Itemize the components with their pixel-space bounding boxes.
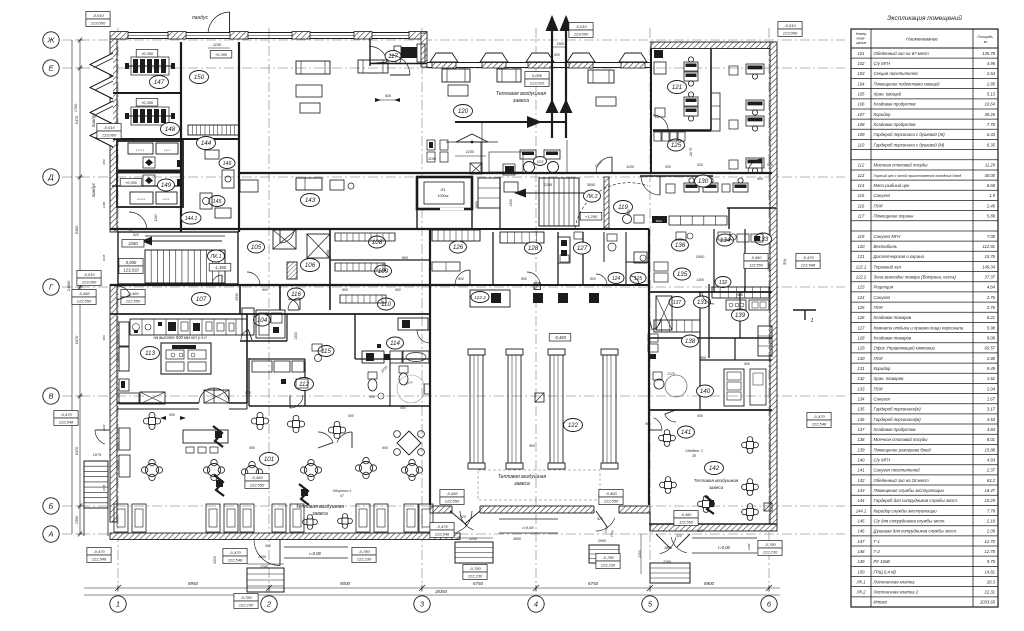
svg-text:920: 920: [697, 163, 703, 167]
svg-text:-0,470: -0,470: [60, 412, 72, 417]
diamond table 101 right: [394, 431, 425, 456]
svg-text:5.98: 5.98: [987, 325, 996, 330]
stair LK2: [500, 177, 609, 228]
room label 104: [254, 314, 271, 326]
svg-text:11.29: 11.29: [985, 163, 996, 168]
svg-text:Коридор: Коридор: [874, 366, 891, 371]
reception counters: [481, 142, 560, 173]
inner left wall small dims: [102, 59, 106, 491]
svg-text:3050: 3050: [587, 183, 596, 187]
transformer T-1: [125, 57, 175, 75]
svg-text:24,75: 24,75: [689, 148, 693, 158]
room label 117: [385, 51, 401, 62]
svg-text:-0,010: -0,010: [83, 272, 95, 277]
svg-text:Торговый зал: Торговый зал: [874, 264, 902, 269]
svg-text:-0,780: -0,780: [602, 555, 614, 560]
door left entrance: [117, 286, 130, 295]
room label 135: [674, 268, 691, 280]
svg-text:39.26: 39.26: [985, 112, 996, 117]
room label 136: [672, 239, 689, 251]
svg-text:Кладовая продуктов: Кладовая продуктов: [874, 102, 917, 107]
svg-text:2.04: 2.04: [986, 386, 996, 391]
svg-text:114: 114: [858, 183, 865, 188]
svg-text:142: 142: [709, 465, 720, 472]
svg-text:i=0,08: i=0,08: [309, 551, 321, 556]
svg-text:завеса: завеса: [512, 98, 529, 104]
wheelchair 142: [698, 496, 715, 514]
elevation mark -0,470/122,548: [54, 411, 78, 426]
svg-text:С/у МГН: С/у МГН: [874, 61, 892, 66]
svg-text:Итого: Итого: [874, 600, 888, 605]
hall mid diamond: [535, 393, 544, 402]
wall y228 upper band: [470, 228, 649, 230]
desk: [733, 178, 748, 192]
dims stair LK2: [509, 160, 603, 207]
svg-text:8.01: 8.01: [987, 437, 995, 442]
svg-text:122.1: 122.1: [856, 264, 866, 269]
svg-text:ЛК.2: ЛК.2: [856, 590, 867, 595]
svg-text:143: 143: [858, 488, 866, 493]
svg-text:1075: 1075: [93, 453, 102, 457]
kitchen counter 139: [712, 287, 769, 310]
room label 147: [150, 76, 169, 89]
wall x430 vertical: [429, 229, 431, 310]
kitchenette row 127: [669, 216, 727, 225]
svg-text:С/у для сотрудников службы экс: С/у для сотрудников службы экспл.: [874, 518, 946, 523]
svg-text:1000кг: 1000кг: [438, 194, 449, 198]
svg-text:18.47: 18.47: [985, 488, 996, 493]
kitchen bottom equipment row: [119, 390, 229, 404]
right block horizontal wall y338: [649, 337, 772, 339]
svg-text:-0,460: -0,460: [251, 475, 263, 480]
svg-text:101: 101: [858, 51, 865, 56]
svg-text:-1,350: -1,350: [214, 265, 227, 270]
svg-text:115: 115: [858, 193, 865, 198]
svg-text:5.89: 5.89: [987, 214, 996, 219]
black pillars row: [533, 293, 599, 303]
room 103 toilet: [368, 372, 384, 399]
svg-text:1100: 1100: [213, 43, 222, 47]
svg-text:Кладовая продуктов: Кладовая продуктов: [874, 122, 917, 127]
svg-text:Гардероб персонала с душевой (: Гардероб персонала с душевой (М): [874, 142, 945, 147]
axis circle 2: [261, 596, 277, 612]
svg-text:121: 121: [672, 84, 682, 91]
svg-text:ЛК.1: ЛК.1: [210, 254, 222, 260]
svg-text:123: 123: [858, 285, 866, 290]
outer wall bottom right: [650, 512, 777, 531]
square tables at benches: [303, 514, 353, 530]
svg-text:108: 108: [372, 239, 383, 246]
wall x247 kitchen right: [246, 314, 248, 403]
svg-text:128: 128: [528, 245, 539, 252]
dining table: [287, 415, 304, 432]
svg-text:15.88: 15.88: [985, 447, 996, 452]
svg-text:132: 132: [719, 280, 728, 286]
svg-text:Горячий цех с зоной приготовле: Горячий цех с зоной приготовления холодн…: [874, 174, 962, 178]
room label 116: [288, 288, 305, 300]
svg-text:Тепловая воздушная: Тепловая воздушная: [694, 478, 739, 483]
svg-text:123,000: 123,000: [783, 31, 798, 36]
elevation mark -0,010/123,000: [97, 124, 121, 139]
svg-text:1700: 1700: [74, 103, 78, 112]
wall under room 149 block: [112, 185, 181, 187]
svg-text:117: 117: [388, 53, 398, 60]
axis circle Г: [43, 279, 59, 295]
svg-text:800: 800: [521, 277, 527, 281]
svg-text:136: 136: [675, 242, 686, 249]
svg-text:123,000: 123,000: [82, 280, 97, 285]
room 114 equipment: [362, 318, 429, 363]
svg-text:РУ 10кВ: РУ 10кВ: [874, 559, 890, 564]
svg-text:143: 143: [305, 197, 316, 204]
svg-text:2000: 2000: [597, 539, 606, 543]
outer wall left upper: [110, 39, 117, 232]
svg-text:Обеденный зал на 67 мест: Обеденный зал на 67 мест: [874, 51, 930, 56]
svg-text:121: 121: [858, 254, 865, 259]
svg-text:2: 2: [266, 600, 272, 609]
svg-text:6470: 6470: [75, 335, 79, 344]
svg-text:122: 122: [568, 422, 579, 429]
right block horizontal wall y292: [649, 291, 772, 293]
svg-text:920: 920: [676, 534, 682, 538]
svg-text:38350: 38350: [435, 589, 447, 594]
desk: [684, 92, 698, 106]
thermal curtain label hall 120: [496, 91, 546, 104]
svg-text:122,230: 122,230: [468, 574, 483, 579]
svg-text:-0,460: -0,460: [605, 491, 617, 496]
svg-text:116: 116: [291, 291, 301, 298]
elevation mark -0,470/122,548: [807, 413, 831, 428]
svg-text:107: 107: [858, 112, 866, 117]
svg-text:с у с: с у с: [164, 148, 171, 152]
busbar band: [118, 170, 182, 174]
door hall122 left: [417, 330, 430, 343]
elevation mark -0,010/123,000: [86, 12, 110, 27]
svg-text:1300: 1300: [294, 332, 298, 340]
svg-text:63.2: 63.2: [987, 478, 996, 483]
desk: [746, 100, 764, 115]
svg-text:Б: Б: [49, 502, 54, 511]
svg-text:105: 105: [858, 92, 866, 97]
kitchen top wall: [110, 313, 430, 315]
room label 107: [192, 293, 211, 306]
elevation mark -0,460/122,550: [674, 511, 698, 526]
axis circle 4: [528, 596, 544, 612]
svg-text:900: 900: [645, 422, 651, 426]
svg-text:завеса: завеса: [311, 511, 328, 517]
svg-text:Д: Д: [47, 173, 54, 182]
room label 141: [678, 426, 695, 438]
middle rooms divider y260: [330, 259, 430, 261]
svg-text:138: 138: [858, 437, 866, 442]
left outside stair: [84, 461, 108, 536]
svg-text:С/у МГН: С/у МГН: [874, 457, 892, 462]
svg-text:2.64: 2.64: [986, 71, 996, 76]
svg-text:138: 138: [685, 338, 696, 345]
svg-text:завеса: завеса: [708, 485, 724, 490]
room label 122.2: [471, 292, 489, 303]
svg-text:ЛК.1: ЛК.1: [856, 579, 866, 584]
svg-text:1500: 1500: [75, 515, 79, 524]
wall 121 left: [650, 49, 652, 173]
svg-text:2.46: 2.46: [986, 203, 996, 208]
market racks: [468, 349, 618, 469]
svg-text:920: 920: [554, 53, 560, 57]
svg-text:149: 149: [161, 182, 172, 189]
axis circle Д: [43, 169, 59, 185]
step wall at x427: [421, 33, 427, 67]
security room 117: [370, 39, 427, 66]
elevation mark -1,350: [209, 264, 231, 272]
svg-text:6400: 6400: [75, 225, 79, 234]
svg-text:Лестничная клетка 2: Лестничная клетка 2: [873, 590, 919, 595]
svg-text:800: 800: [458, 277, 464, 281]
svg-text:900: 900: [382, 446, 388, 450]
svg-text:2.37: 2.37: [986, 468, 996, 473]
stair LK1 arrows: [141, 237, 222, 257]
svg-text:4.84: 4.84: [987, 427, 996, 432]
svg-text:А: А: [47, 530, 53, 539]
room label 140: [697, 385, 714, 397]
hall 122 top rooms bottom wall: [433, 284, 649, 286]
svg-text:142: 142: [858, 478, 866, 483]
svg-text:145: 145: [858, 518, 866, 523]
svg-text:104: 104: [858, 81, 866, 86]
door room 112: [290, 395, 303, 408]
svg-text:37.37: 37.37: [985, 275, 996, 280]
toilet room 124: [607, 234, 617, 251]
svg-text:-0,470: -0,470: [93, 549, 105, 554]
svg-text:122,550: 122,550: [250, 483, 265, 488]
svg-text:123,000: 123,000: [91, 21, 106, 26]
door entrance B2: [460, 511, 473, 530]
room label 128: [525, 242, 542, 254]
svg-text:Гардероб для сотрудников служб: Гардероб для сотрудников службы экспл.: [874, 498, 959, 503]
outer wall top left section: [110, 32, 427, 40]
svg-text:123,000: 123,000: [574, 32, 589, 37]
svg-text:10.64: 10.64: [985, 102, 996, 107]
svg-text:900: 900: [245, 391, 251, 395]
wall under room 150: [181, 138, 239, 140]
svg-text:пандус: пандус: [91, 112, 96, 127]
desk: [684, 57, 698, 71]
axis circle Б: [43, 498, 59, 514]
svg-text:24900: 24900: [67, 280, 71, 292]
room label 112: [295, 378, 314, 391]
elevation mark +0,300: [210, 51, 232, 59]
svg-text:2930: 2930: [235, 293, 239, 302]
room label 123: [534, 157, 547, 166]
svg-text:122.2: 122.2: [856, 275, 867, 280]
dims mid: [428, 157, 773, 281]
svg-text:920: 920: [767, 163, 773, 167]
svg-text:-0,780: -0,780: [764, 542, 776, 547]
svg-text:Площадь,: Площадь,: [977, 35, 993, 39]
room label 122: [564, 419, 583, 432]
svg-text:144: 144: [858, 498, 866, 503]
svg-text:Гардероб персонала с душевой (: Гардероб персонала с душевой (Ж): [874, 132, 946, 137]
svg-text:1500: 1500: [326, 250, 330, 258]
svg-text:9.08: 9.08: [987, 335, 996, 340]
kitchen bottom wall: [117, 403, 247, 409]
svg-text:завеса: завеса: [513, 481, 530, 487]
ramp door top wall: [192, 12, 230, 48]
door room 121: [653, 115, 668, 130]
svg-text:2175: 2175: [666, 372, 674, 376]
axis circle Ж: [43, 32, 59, 48]
svg-text:108: 108: [858, 122, 866, 127]
room 145 fixtures: [200, 193, 231, 218]
svg-text:122,550: 122,550: [445, 499, 460, 504]
svg-text:-0,780: -0,780: [240, 595, 252, 600]
svg-text:125: 125: [671, 142, 682, 149]
dims middle rooms: [326, 250, 705, 260]
room label 108: [369, 236, 386, 248]
wall under 125: [640, 175, 713, 177]
svg-text:Кладовая товаров: Кладовая товаров: [874, 315, 912, 320]
room label 145: [209, 196, 225, 207]
svg-text:Тепловая воздушная: Тепловая воздушная: [296, 504, 345, 510]
thermal curtain label dining: [296, 504, 345, 517]
room label 149: [158, 179, 175, 191]
storage rack X 106: [287, 234, 330, 279]
thermal curtain 142: [694, 478, 739, 490]
door room 105: [247, 272, 260, 285]
svg-text:9.49: 9.49: [987, 366, 996, 371]
svg-text:6470: 6470: [75, 115, 79, 124]
svg-text:134: 134: [720, 237, 731, 244]
svg-text:106: 106: [858, 102, 866, 107]
svg-text:э э э э: э э э э: [137, 197, 145, 201]
svg-text:12.70: 12.70: [985, 539, 996, 544]
svg-text:-0,470: -0,470: [229, 550, 241, 555]
door room 129: [748, 159, 762, 173]
svg-text:2295: 2295: [543, 183, 553, 187]
dims kitchen: [245, 276, 651, 395]
svg-text:поме-: поме-: [856, 37, 866, 41]
door room 106: [288, 298, 300, 310]
svg-text:3.17: 3.17: [987, 407, 996, 412]
room label 106: [301, 259, 320, 272]
outer wall right: [770, 42, 777, 527]
svg-text:Зона выкладки товара (Витрина,: Зона выкладки товара (Витрина, касса): [874, 275, 957, 280]
svg-text:2200: 2200: [259, 565, 268, 569]
svg-text:2200: 2200: [468, 537, 477, 541]
wall right of 150 / hall 120 left: [238, 42, 240, 232]
svg-text:2.09: 2.09: [986, 529, 996, 534]
room label 142: [705, 462, 724, 475]
svg-text:Помещение разогрева блюд: Помещение разогрева блюд: [874, 447, 932, 452]
room label 121: [668, 81, 687, 94]
svg-text:122,230: 122,230: [601, 563, 616, 568]
svg-text:1500: 1500: [696, 255, 705, 259]
svg-text:109: 109: [858, 132, 866, 137]
svg-text:1300: 1300: [696, 278, 704, 282]
svg-text:1: 1: [116, 600, 120, 609]
svg-text:147: 147: [154, 79, 165, 86]
svg-text:4.53: 4.53: [987, 417, 996, 422]
bench seats bottom wall: [114, 504, 433, 532]
elevation mark -0,460/122,550: [245, 474, 269, 489]
svg-text:Санузел: Санузел: [874, 295, 891, 300]
elevation mark -0,460/122,550: [599, 490, 623, 505]
svg-text:Гардероб персонала(м): Гардероб персонала(м): [874, 417, 922, 422]
svg-text:1100: 1100: [626, 165, 634, 169]
bottom dimension line: [84, 581, 780, 595]
dining table: [660, 477, 677, 494]
wall under transformer room 148: [112, 138, 181, 140]
room label 134: [717, 234, 734, 246]
svg-text:148: 148: [165, 126, 176, 133]
room 146 fixtures: [205, 150, 234, 188]
svg-text:900: 900: [757, 177, 763, 181]
svg-text:Рецепция: Рецепция: [874, 285, 894, 290]
svg-text:щения: щения: [856, 41, 867, 45]
room label 146: [219, 158, 235, 169]
svg-text:1300: 1300: [647, 276, 651, 284]
room 130 walls: [727, 208, 776, 229]
grid axis horizontal lines: [62, 40, 845, 534]
svg-text:22.31: 22.31: [984, 590, 995, 595]
svg-text:3850: 3850: [513, 537, 521, 541]
dining table: [241, 461, 262, 482]
elevation mark -0,780/122,230: [758, 541, 782, 556]
svg-text:1035: 1035: [102, 484, 106, 491]
svg-text:8950: 8950: [188, 581, 199, 586]
wall under transformer room 147: [112, 92, 181, 94]
svg-text:Санузел МГН: Санузел МГН: [874, 234, 902, 239]
svg-text:40.00: 40.00: [985, 173, 996, 178]
svg-text:127: 127: [577, 245, 588, 252]
hall 120 bottom wall: [239, 172, 772, 174]
svg-text:1365: 1365: [556, 42, 564, 46]
svg-text:120: 120: [458, 108, 469, 115]
svg-text:8.21: 8.21: [987, 315, 995, 320]
svg-text:122,548: 122,548: [59, 420, 74, 425]
dining table: [742, 479, 759, 496]
kitchen right cabinet: [242, 308, 254, 335]
wheelchair symbols: [213, 426, 309, 505]
dining table: [328, 421, 345, 438]
svg-text:+0,300: +0,300: [141, 51, 154, 56]
door entrance A: [254, 540, 280, 566]
svg-text:э л э: э л э: [163, 197, 170, 201]
room label 143: [301, 194, 320, 207]
svg-text:128: 128: [858, 335, 866, 340]
couch 143: [478, 178, 518, 208]
svg-text:126: 126: [453, 244, 464, 251]
door room 116: [288, 299, 299, 310]
dims right block: [696, 259, 787, 366]
svg-text:920: 920: [697, 529, 703, 533]
svg-text:900: 900: [744, 362, 750, 366]
svg-text:113: 113: [145, 350, 155, 357]
svg-text:-0,460: -0,460: [751, 256, 763, 260]
door entrance B1: [458, 511, 473, 532]
wall stair block bottom / corridor top: [110, 284, 470, 286]
outer wall bottom dining: [110, 533, 460, 540]
svg-text:Коридор: Коридор: [874, 112, 891, 117]
room label ЛК.1: [208, 250, 225, 262]
svg-text:4.95: 4.95: [987, 61, 996, 66]
svg-text:114: 114: [390, 340, 400, 347]
axis circle Е: [43, 60, 59, 76]
svg-text:60.57: 60.57: [985, 346, 996, 351]
room label 119: [614, 201, 633, 214]
left dimension line: [67, 38, 83, 537]
room label 133: [755, 233, 772, 245]
transformer T-2: [125, 107, 175, 125]
